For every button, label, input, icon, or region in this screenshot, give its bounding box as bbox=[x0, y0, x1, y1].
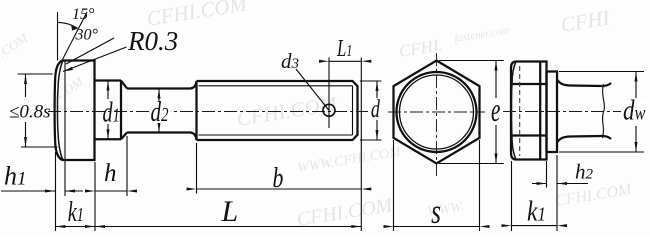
hex head front view centerlines bbox=[388, 53, 485, 176]
svg-text:L: L bbox=[221, 195, 239, 228]
svg-text:R0.3: R0.3 bbox=[127, 26, 178, 56]
h dimension bbox=[95, 136, 127, 231]
collar d1 bbox=[95, 81, 122, 140]
hidden line dashes bbox=[519, 66, 521, 156]
svg-text:e: e bbox=[491, 92, 500, 129]
break line bbox=[603, 84, 605, 138]
e dimension bbox=[439, 61, 504, 164]
svg-text:15°: 15° bbox=[72, 6, 95, 23]
d dimension bbox=[360, 81, 382, 140]
bolt head (left view, corner toward viewer) bbox=[63, 61, 95, 161]
svg-text:b: b bbox=[273, 161, 284, 194]
d2 dimension bbox=[158, 89, 160, 133]
split pin hole d3 bbox=[323, 104, 335, 116]
b dimension bbox=[197, 58, 362, 232]
k1 and L chained dimensions bbox=[56, 226, 362, 228]
s dimension bbox=[394, 140, 480, 231]
0.8s face dimension bbox=[18, 74, 58, 147]
face plane extension line bbox=[64, 61, 66, 196]
h2 dimension bbox=[547, 155, 558, 231]
hole centerline bbox=[328, 58, 330, 129]
facet arcs bbox=[511, 62, 516, 160]
centerline (left view) bbox=[48, 111, 368, 113]
neck d2 bbox=[127, 81, 197, 140]
thread minor diameter lines bbox=[199, 86, 353, 135]
15/30 degree chamfer angles bbox=[57, 12, 59, 61]
head crown face bbox=[55, 61, 63, 161]
facet lines bbox=[511, 62, 547, 160]
svg-text:s: s bbox=[431, 192, 441, 231]
L1 dimension bbox=[329, 60, 361, 62]
head facet arcs (left view) bbox=[58, 61, 63, 89]
svg-text:≤0.8s: ≤0.8s bbox=[9, 102, 51, 123]
svg-text:30°: 30° bbox=[75, 27, 99, 44]
shank stub bbox=[557, 80, 611, 87]
threaded shank bbox=[197, 81, 358, 140]
centerline (right view) bbox=[503, 111, 622, 113]
hexagon outline bbox=[394, 61, 480, 164]
svg-text:h: h bbox=[104, 160, 117, 187]
chamfer circles bbox=[397, 72, 477, 152]
d1 dimension bbox=[107, 81, 109, 140]
svg-text:d: d bbox=[371, 95, 380, 123]
washer disc bbox=[547, 72, 558, 153]
bolt head (right view, flat toward viewer) bbox=[511, 62, 547, 160]
k1 dimension (right view) bbox=[511, 161, 513, 231]
dw dimension bbox=[559, 72, 644, 153]
collar-to-neck chamfer bbox=[121, 81, 127, 140]
h1 dimension bbox=[1, 152, 83, 231]
